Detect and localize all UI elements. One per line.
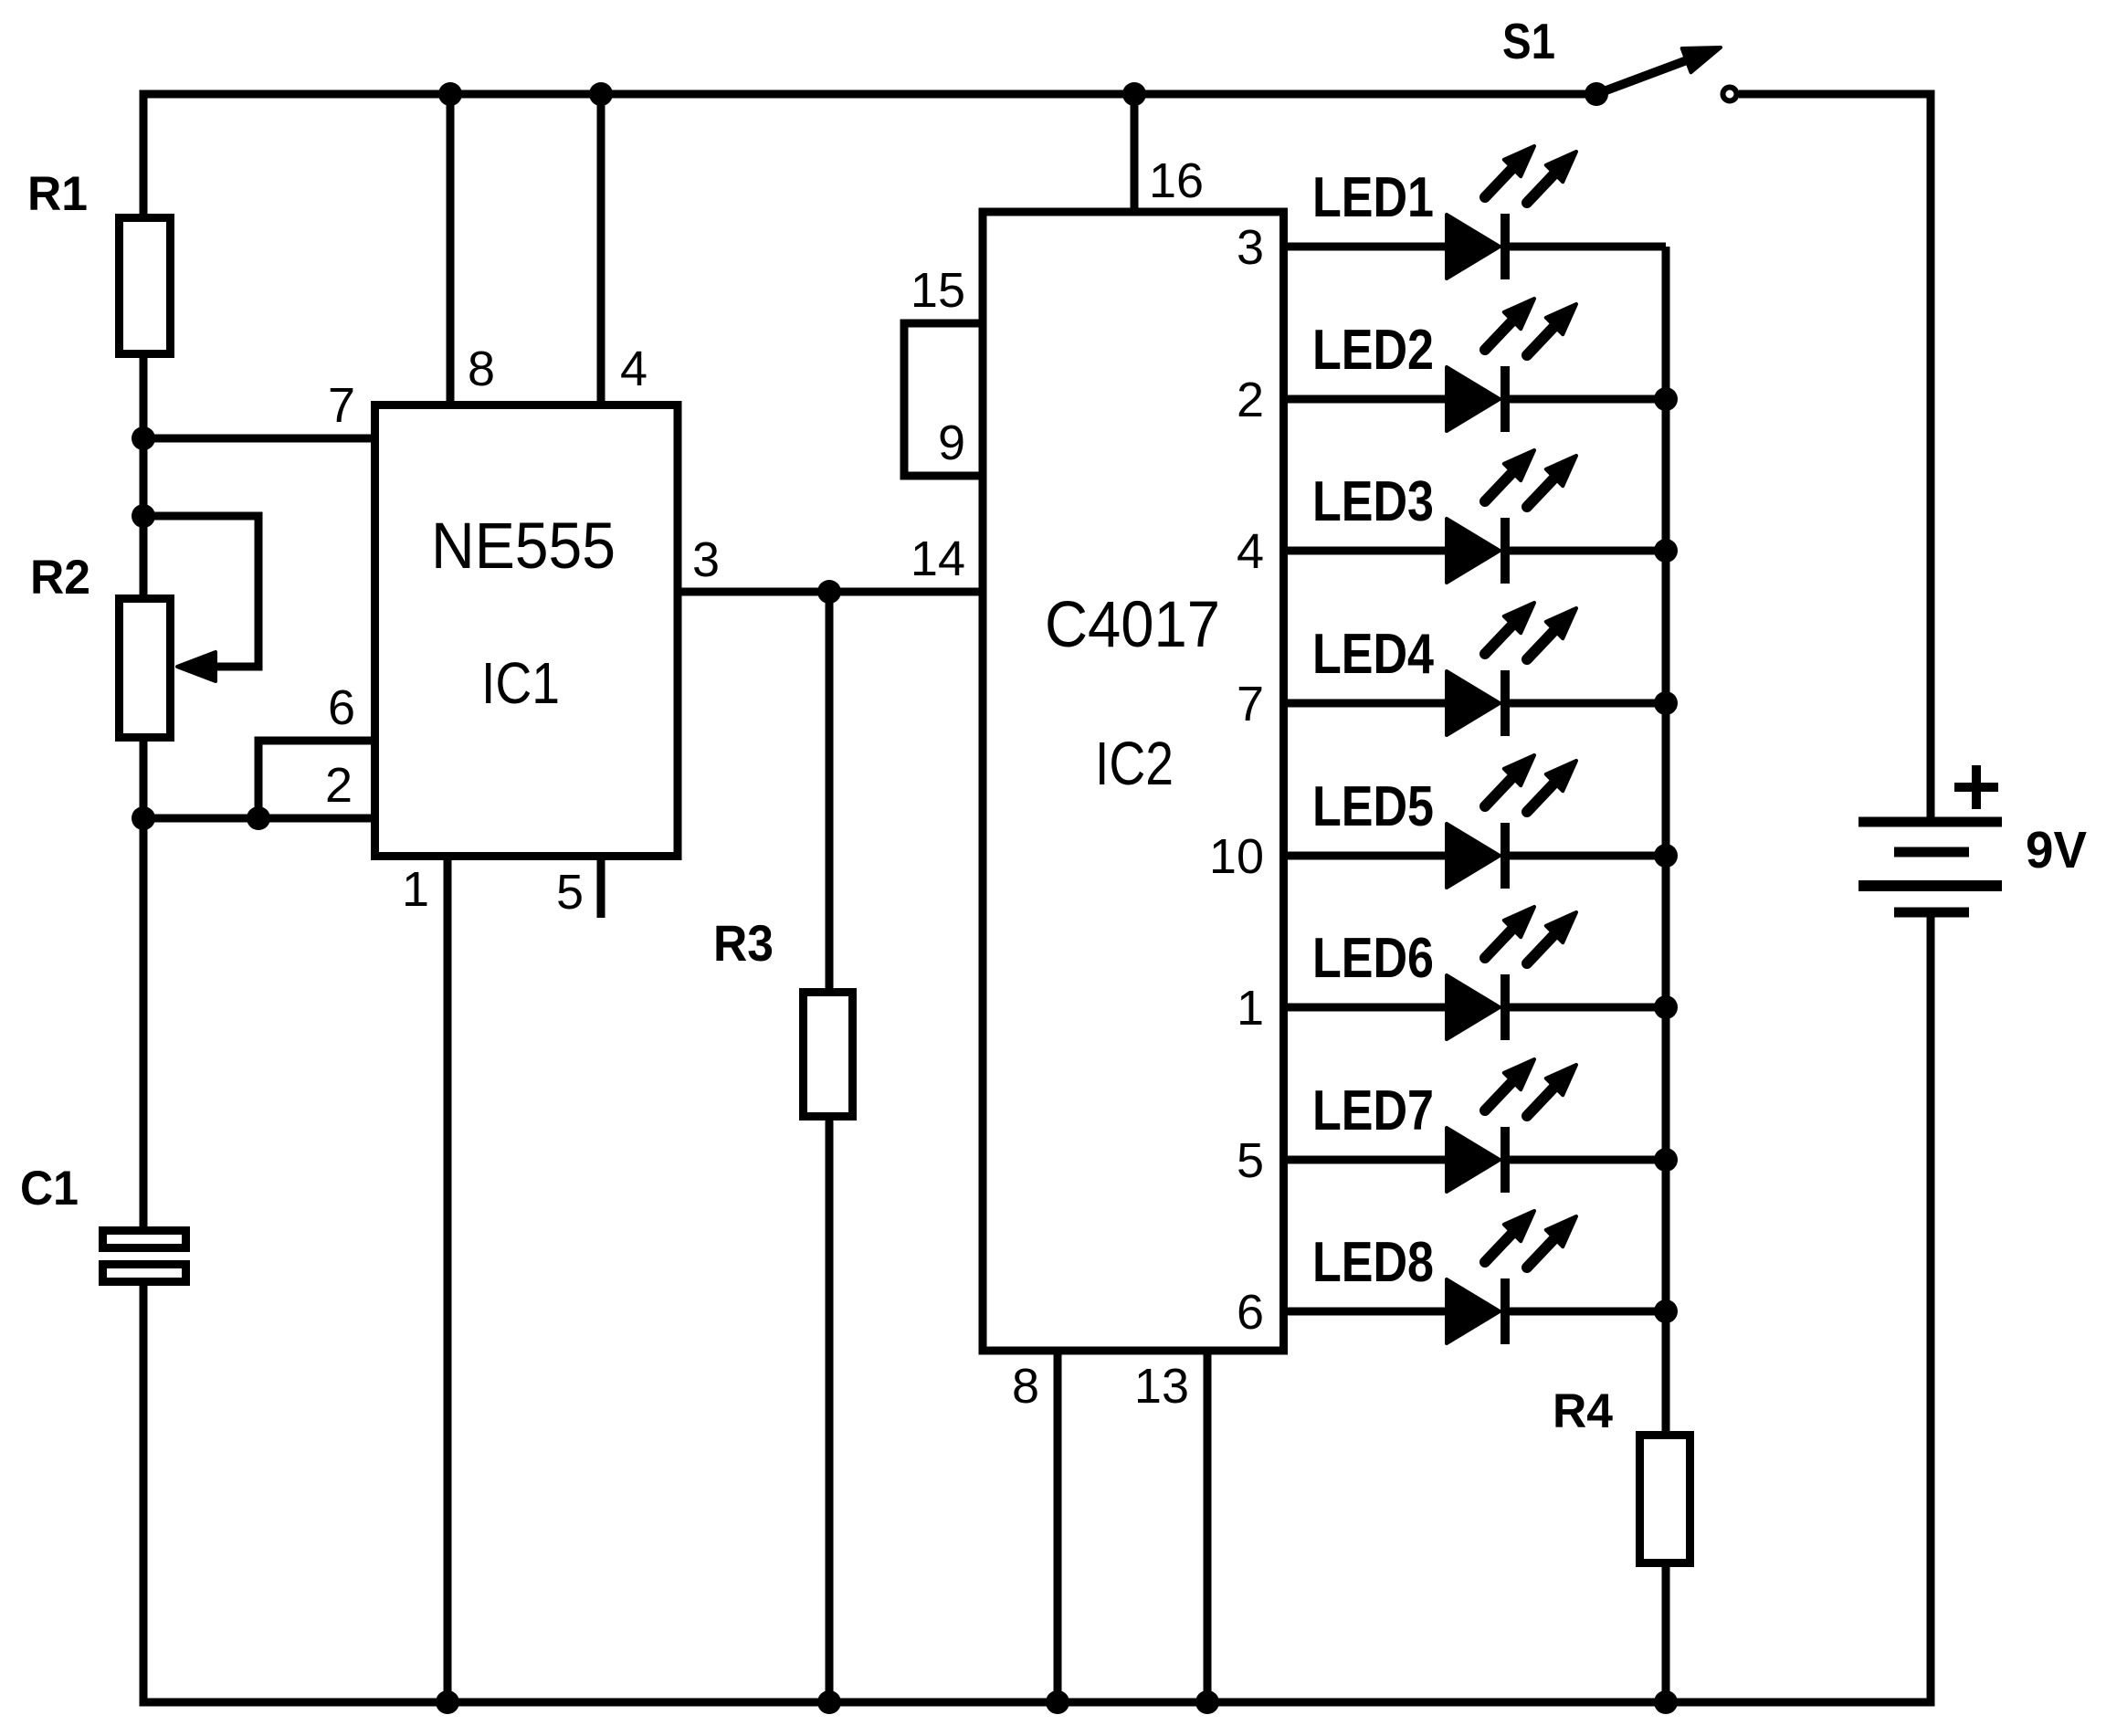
wire LED2 cathode to LED bus <box>1506 395 1666 404</box>
svg-text:4: 4 <box>1237 524 1264 579</box>
svg-text:4: 4 <box>620 342 648 396</box>
svg-text:5: 5 <box>1237 1133 1264 1188</box>
wire IC1 pin 2 to left rail <box>143 815 376 823</box>
node junction top bus / IC2 pin 16 <box>1122 82 1146 106</box>
junction on LED bus at LED2 <box>1654 387 1678 411</box>
svg-text:R4: R4 <box>1553 1384 1613 1438</box>
wire IC2 pin 8 to bottom bus <box>1054 1351 1062 1702</box>
svg-text:R3: R3 <box>713 914 774 972</box>
junction on LED bus at LED3 <box>1654 539 1678 563</box>
switch S1 lever <box>1596 60 1687 94</box>
resistor R4 body <box>1640 1436 1690 1563</box>
LED 7 diode triangle (anode) <box>1447 1128 1500 1192</box>
junction on LED bus at LED7 <box>1654 1148 1678 1172</box>
wire R3 bottom to bottom bus <box>826 1121 834 1702</box>
wire LED8 cathode to LED bus <box>1506 1308 1666 1316</box>
wire IC2 pin 16 to top bus <box>1131 94 1139 212</box>
svg-text:1: 1 <box>402 862 429 917</box>
LED 1 cathode bar <box>1501 214 1510 279</box>
node junction left rail / R2 wiper <box>132 504 155 528</box>
capacitor C1 bottom plate <box>103 1265 186 1282</box>
LED 1 diode triangle (anode) <box>1447 215 1500 279</box>
svg-text:R1: R1 <box>27 167 88 221</box>
wire LED7 cathode to LED bus <box>1506 1156 1666 1164</box>
LED 7 cathode bar <box>1501 1127 1510 1193</box>
wire LED6 cathode to LED bus <box>1506 1004 1666 1012</box>
wire IC1 pin 4 to top bus <box>597 94 605 406</box>
LED 3 light emission arrows <box>1485 450 1576 507</box>
svg-text:6: 6 <box>1237 1285 1264 1340</box>
svg-text:S1: S1 <box>1502 13 1555 69</box>
LED 6 cathode bar <box>1501 974 1510 1040</box>
battery BT1 plate 4 (short, negative) <box>1894 908 1969 918</box>
svg-text:16: 16 <box>1149 153 1204 208</box>
wire IC2 pin 4 stub to LED3 anode <box>1284 547 1447 555</box>
svg-text:C4017: C4017 <box>1045 589 1220 661</box>
wire IC2 pin 15 to pin 9 loop <box>904 323 983 476</box>
LED 4 light emission arrows <box>1485 603 1576 659</box>
svg-text:LED3: LED3 <box>1312 470 1434 533</box>
svg-text:10: 10 <box>1209 829 1264 884</box>
wire LED bus vertical to R4 <box>1662 247 1670 1431</box>
node junction bottom bus / IC1 pin 1 <box>436 1690 459 1714</box>
node junction bottom bus / R4 <box>1654 1690 1678 1714</box>
wire IC1 pin 1 to bottom bus <box>444 857 452 1702</box>
op IC1 NE555 body <box>375 405 679 857</box>
svg-text:8: 8 <box>468 342 495 396</box>
LED 8 light emission arrows <box>1485 1211 1576 1268</box>
node junction left rail / IC1 pin 7 <box>132 426 155 450</box>
switch S1 pivot contact <box>1585 82 1608 106</box>
wire IC2 pin 6 stub to LED8 anode <box>1284 1308 1447 1316</box>
svg-text:6: 6 <box>328 680 355 735</box>
svg-text:IC2: IC2 <box>1095 730 1174 798</box>
wire IC1 pin 8 to top bus <box>447 94 455 406</box>
node junction top bus / IC1 pin 8 <box>438 82 462 106</box>
wire left rail R1 to R2 <box>140 358 148 594</box>
wire IC2 pin 2 stub to LED2 anode <box>1284 395 1447 404</box>
op IC2 C4017 body <box>983 212 1284 1351</box>
LED 8 diode triangle (anode) <box>1447 1279 1500 1343</box>
junction on LED bus at LED8 <box>1654 1299 1678 1323</box>
node junction top bus / IC1 pin 4 <box>589 82 613 106</box>
wire switch output to top-right corner down to battery plus <box>1739 94 1931 822</box>
node junction bottom bus / IC2 pin 13 <box>1195 1690 1219 1714</box>
node junction bottom bus / IC2 pin 8 <box>1046 1690 1069 1714</box>
wire LED4 cathode to LED bus <box>1506 700 1666 708</box>
LED 3 cathode bar <box>1501 518 1510 584</box>
svg-text:LED8: LED8 <box>1312 1231 1434 1294</box>
R2 wiper arrowhead <box>177 652 216 681</box>
svg-text:9: 9 <box>938 416 965 470</box>
battery BT1 plate 1 (long, positive) <box>1859 817 2002 827</box>
svg-text:2: 2 <box>325 758 353 813</box>
svg-text:C1: C1 <box>20 1162 79 1215</box>
svg-text:LED2: LED2 <box>1312 319 1434 382</box>
wire LED5 cathode to LED bus <box>1506 852 1666 860</box>
svg-text:13: 13 <box>1134 1359 1189 1414</box>
svg-text:LED6: LED6 <box>1312 927 1434 990</box>
wire IC1 pin 3 to IC2 pin 14 <box>679 588 983 596</box>
node junction left rail / pin 2 net <box>132 806 155 830</box>
wire LED3 cathode to LED bus <box>1506 547 1666 555</box>
wire IC2 pin 1 stub to LED6 anode <box>1284 1004 1447 1012</box>
svg-text:LED1: LED1 <box>1312 166 1434 229</box>
switch S1 open contact <box>1723 88 1737 101</box>
LED 7 light emission arrows <box>1485 1059 1576 1116</box>
wire IC2 pin 7 stub to LED4 anode <box>1284 700 1447 708</box>
svg-text:1: 1 <box>1237 981 1264 1036</box>
svg-text:LED4: LED4 <box>1312 623 1434 686</box>
junction on LED bus at LED5 <box>1654 844 1678 868</box>
wire left rail R2 to C1 <box>140 742 148 1226</box>
wire IC1 pin 6 to loop <box>258 741 376 818</box>
svg-text:3: 3 <box>1237 220 1264 275</box>
svg-text:3: 3 <box>692 532 720 587</box>
LED 4 diode triangle (anode) <box>1447 671 1500 735</box>
potentiometer R2 body <box>120 599 171 738</box>
svg-text:15: 15 <box>911 263 965 318</box>
svg-text:7: 7 <box>328 378 355 433</box>
svg-text:LED5: LED5 <box>1312 775 1434 838</box>
svg-text:R2: R2 <box>30 551 90 605</box>
LED 6 light emission arrows <box>1485 907 1576 963</box>
LED 4 cathode bar <box>1501 670 1510 736</box>
wire IC2 pin 5 stub to LED7 anode <box>1284 1156 1447 1164</box>
svg-text:IC1: IC1 <box>481 650 560 716</box>
switch S1 lever arrowhead <box>1682 47 1721 72</box>
LED 5 cathode bar <box>1501 823 1510 889</box>
node junction pin3 net / R3 <box>817 580 841 604</box>
svg-text:2: 2 <box>1237 373 1264 427</box>
LED 3 diode triangle (anode) <box>1447 519 1500 583</box>
node junction pin 6 loop / pin 2 wire <box>247 806 270 830</box>
wire IC2 pin 13 to bottom bus <box>1204 1351 1212 1702</box>
wire R2 wiper connection <box>143 516 258 667</box>
wire node to R3 top <box>826 592 834 988</box>
wire IC1 pin 5 stub <box>597 857 605 918</box>
resistor R3 body <box>804 993 853 1117</box>
resistor R1 body <box>120 218 171 354</box>
LED 5 light emission arrows <box>1485 755 1576 812</box>
node junction bottom bus / R3 <box>817 1690 841 1714</box>
wire LED1 cathode to LED bus <box>1506 243 1666 251</box>
LED 6 diode triangle (anode) <box>1447 975 1500 1039</box>
wire IC2 pin 10 stub to LED5 anode <box>1284 852 1447 860</box>
battery BT1 plus sign <box>1954 765 1998 809</box>
svg-text:7: 7 <box>1237 677 1264 731</box>
svg-text:9V: 9V <box>2026 821 2087 879</box>
battery BT1 plate 2 (short) <box>1894 847 1969 857</box>
LED 2 cathode bar <box>1501 366 1510 432</box>
wire IC1 pin 7 to left rail <box>143 435 376 443</box>
svg-text:14: 14 <box>911 531 965 586</box>
wire top bus from left rail to switch S1 and top-left corner down to R1 <box>143 94 1596 214</box>
LED 1 light emission arrows <box>1485 146 1576 203</box>
LED 8 cathode bar <box>1501 1278 1510 1344</box>
svg-text:8: 8 <box>1012 1359 1039 1414</box>
wire left rail below C1, bottom bus, right rail up to battery minus <box>143 912 1931 1702</box>
capacitor C1 top plate <box>103 1231 186 1248</box>
junction on LED bus at LED6 <box>1654 995 1678 1019</box>
junction on LED bus at LED4 <box>1654 691 1678 715</box>
LED 2 light emission arrows <box>1485 299 1576 355</box>
battery BT1 plate 3 (long) <box>1859 880 2002 891</box>
svg-text:LED7: LED7 <box>1312 1079 1434 1142</box>
LED 2 diode triangle (anode) <box>1447 367 1500 431</box>
wire R4 to bottom bus <box>1662 1567 1670 1702</box>
svg-text:5: 5 <box>556 865 584 920</box>
LED 5 diode triangle (anode) <box>1447 824 1500 888</box>
wire IC2 pin 3 stub to LED1 anode <box>1284 243 1447 251</box>
svg-text:NE555: NE555 <box>431 510 616 583</box>
